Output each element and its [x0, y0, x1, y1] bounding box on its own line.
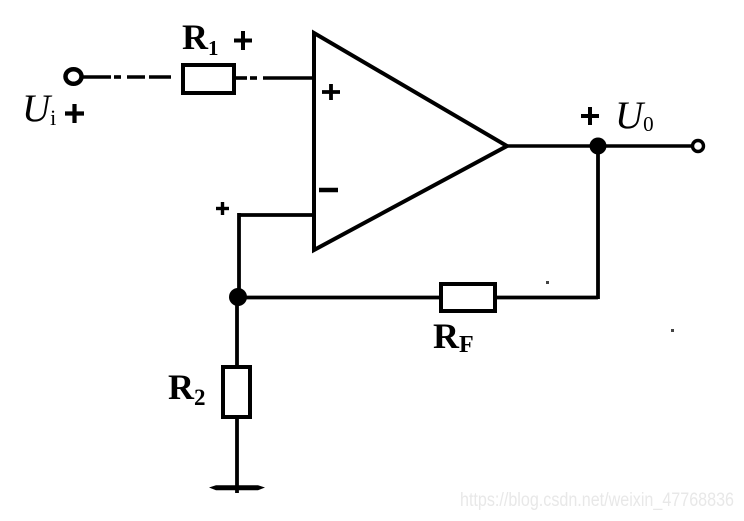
svg-text:U0: U0 — [615, 94, 654, 137]
plus sign near Uo — [581, 107, 599, 125]
wire input dash-dot segments — [83, 75, 171, 79]
wire junction to R2 — [235, 303, 239, 368]
wire junction to RF — [238, 296, 440, 300]
resistor RF — [441, 284, 495, 311]
svg-text:https://blog.csdn.net/weixin_4: https://blog.csdn.net/weixin_47768836 — [460, 490, 734, 511]
input terminal circle — [66, 69, 82, 84]
wire RF to right vertical — [495, 296, 598, 300]
output wire — [505, 144, 692, 148]
speckle dot — [671, 329, 674, 332]
junction node dot — [229, 288, 247, 306]
wire resistor to op-amp — [236, 76, 314, 80]
speckle dot — [546, 281, 549, 284]
svg-text:R2: R2 — [168, 367, 206, 410]
svg-text:RF: RF — [433, 316, 474, 358]
right vertical wire — [596, 148, 600, 299]
resistor R1 — [183, 65, 234, 93]
op-amp U1 triangle — [314, 33, 507, 250]
svg-text:R1: R1 — [182, 17, 219, 60]
op-amp noninverting + mark — [322, 84, 340, 100]
output terminal circle — [693, 141, 704, 152]
plus sign near R1 — [234, 31, 252, 50]
plus sign near Ui — [65, 104, 84, 123]
wire inverting input vertical — [237, 213, 241, 297]
svg-text:Ui: Ui — [22, 87, 56, 130]
ground — [209, 485, 265, 490]
plus sign near inverting corner — [216, 202, 229, 215]
op-amp inverting - mark — [319, 188, 338, 193]
output node dot — [590, 138, 607, 155]
wire R2 to ground — [235, 418, 239, 493]
resistor R2 — [223, 367, 250, 417]
wire inverting input horizontal — [239, 213, 314, 217]
